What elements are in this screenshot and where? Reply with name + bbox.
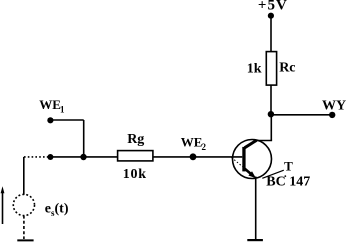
svg-text:Rg: Rg: [127, 132, 144, 147]
reference label Rc: [279, 61, 295, 76]
wire from collector node down to transistor collector: [270, 115, 272, 141]
value label 1k: [247, 61, 262, 76]
svg-text:2: 2: [202, 142, 207, 152]
wire from collector node to WY: [271, 114, 332, 116]
wire from Rc bottom to collector node: [270, 85, 272, 114]
node WY label: [322, 98, 346, 113]
svg-text:WE: WE: [39, 97, 61, 112]
node WE2 dot: [190, 153, 197, 160]
wire dashed from source to ground: [23, 216, 25, 239]
transistor Q1 collector horizontal segment: [256, 140, 272, 142]
svg-text:e: e: [45, 202, 51, 217]
reference label Rg: [127, 132, 144, 147]
node collector junction dot: [268, 111, 274, 117]
wire from junction to Rg left: [48, 156, 118, 158]
wire from +5V to resistor Rc top: [270, 16, 272, 52]
transistor Q1 envelope circle: [233, 140, 272, 179]
ground (emitter): [247, 239, 263, 241]
speck near BC 147: [284, 175, 286, 177]
ground (source): [17, 239, 33, 241]
wire base lead from WE2 to transistor base: [153, 156, 242, 158]
transistor Q1 emitter diagonal stroke: [245, 169, 253, 175]
leader line from transistor to label T: [262, 170, 284, 178]
resistor Rc body: [266, 52, 276, 86]
transistor type label BC 147: [266, 174, 310, 189]
node junction dot (source tap): [47, 154, 53, 160]
svg-text:10k: 10k: [123, 167, 147, 182]
node junction dot (WE1 branch): [80, 154, 86, 160]
node WE1 label: [39, 97, 65, 114]
svg-text:Rc: Rc: [279, 61, 295, 76]
transistor label T: [284, 158, 293, 173]
stray dotted construction line inside transistor: [232, 158, 247, 170]
resistor Rg body: [118, 151, 153, 161]
arrow polarity indicator line: [2, 191, 4, 224]
svg-text:T: T: [284, 158, 293, 173]
source label e_s(t): [45, 202, 69, 218]
node WY terminal dot: [329, 112, 335, 118]
node WE2 label: [181, 135, 207, 152]
node +5V label: [258, 0, 288, 13]
svg-text:WY: WY: [322, 98, 346, 113]
transistor Q1 base bar: [242, 147, 245, 172]
source e_s(t) circle: [13, 194, 34, 215]
svg-text:BC 147: BC 147: [266, 174, 310, 189]
svg-text:1: 1: [60, 104, 65, 114]
svg-text:WE: WE: [181, 135, 203, 150]
node WE1 dot: [47, 117, 53, 123]
transistor Q1 emitter arrowhead: [248, 171, 256, 178]
arrow polarity indicator head: [1, 186, 5, 193]
node +5V terminal dot: [268, 13, 274, 19]
wire emitter down to ground: [255, 177, 257, 240]
value label 10k: [123, 167, 147, 182]
wire from main line down to source: [23, 157, 25, 195]
svg-text:+5V: +5V: [258, 0, 288, 13]
wire dotted segment from source corner to first junction: [24, 156, 48, 158]
svg-text:1k: 1k: [247, 61, 262, 76]
wire WE1 branch horizontal: [50, 119, 83, 121]
wire WE1 branch vertical: [83, 120, 85, 157]
svg-text:(t): (t): [55, 202, 69, 217]
transistor Q1 collector diagonal stroke: [245, 140, 257, 148]
